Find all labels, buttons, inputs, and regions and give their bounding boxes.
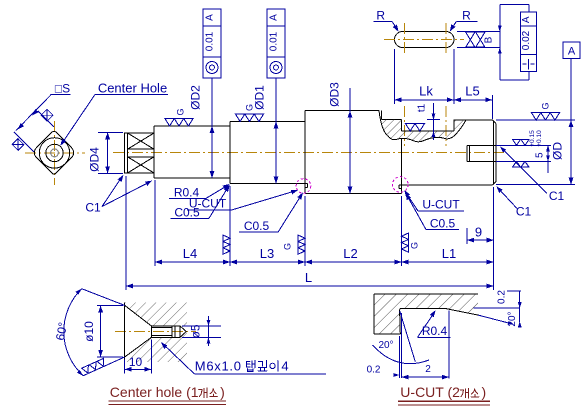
svg-text:R: R [462, 9, 471, 23]
svg-text:□S: □S [55, 82, 70, 96]
svg-text:A: A [521, 16, 532, 23]
svg-text:L2: L2 [343, 246, 357, 261]
svg-text:U-CUT (2: U-CUT (2 [400, 384, 460, 400]
svg-text:20°: 20° [507, 311, 518, 326]
svg-text:ø5: ø5 [189, 324, 203, 338]
svg-text:L1: L1 [442, 246, 456, 261]
svg-text:R: R [376, 9, 385, 23]
svg-text:A: A [269, 14, 280, 21]
svg-text:0.2: 0.2 [497, 290, 508, 304]
svg-text:L3: L3 [260, 246, 274, 261]
svg-text:A: A [205, 14, 216, 21]
svg-text:2: 2 [425, 364, 431, 375]
svg-text:10: 10 [129, 355, 143, 369]
svg-text:20°: 20° [378, 340, 393, 351]
svg-text:G: G [410, 242, 420, 249]
svg-text:G: G [245, 104, 255, 111]
svg-text:M6x1.0: M6x1.0 [195, 358, 242, 373]
svg-text:ØD2: ØD2 [189, 85, 203, 110]
svg-text:ØD3: ØD3 [328, 82, 342, 107]
svg-text:C1: C1 [516, 205, 532, 219]
svg-text:ØD4: ØD4 [88, 147, 102, 172]
svg-text:C0.5: C0.5 [244, 219, 270, 233]
svg-text:A: A [568, 46, 576, 58]
svg-text:U-CUT: U-CUT [422, 198, 460, 212]
svg-text:0.01: 0.01 [269, 31, 280, 51]
svg-text:5: 5 [535, 152, 546, 158]
svg-text:ø10: ø10 [82, 321, 96, 342]
svg-text:Center Hole: Center Hole [98, 81, 167, 96]
svg-text:0.2: 0.2 [367, 365, 381, 376]
svg-text:L5: L5 [465, 83, 479, 98]
svg-text:4: 4 [281, 358, 289, 373]
svg-text:C0.5: C0.5 [430, 217, 456, 231]
svg-text:): ) [482, 384, 487, 400]
svg-text:+0.10: +0.10 [536, 130, 543, 147]
svg-text:0.01: 0.01 [205, 31, 216, 51]
svg-text:Lk: Lk [419, 83, 433, 98]
svg-text:L: L [305, 270, 312, 285]
svg-text:U-CUT: U-CUT [189, 196, 227, 210]
svg-text:C1: C1 [549, 189, 565, 203]
svg-text:C1: C1 [85, 201, 101, 215]
svg-text:ØD: ØD [551, 142, 565, 160]
svg-text:G: G [283, 243, 293, 250]
svg-text:): ) [220, 384, 225, 400]
svg-text:G: G [176, 108, 186, 115]
svg-text:L4: L4 [183, 246, 197, 261]
svg-text:B: B [484, 36, 495, 43]
svg-text:G: G [541, 102, 551, 109]
svg-text:Center hole (1: Center hole (1 [110, 384, 199, 400]
svg-text:t1: t1 [417, 103, 428, 112]
svg-text:0.02: 0.02 [521, 30, 532, 50]
svg-text:9: 9 [475, 224, 482, 239]
svg-text:+0.15: +0.15 [529, 130, 536, 147]
